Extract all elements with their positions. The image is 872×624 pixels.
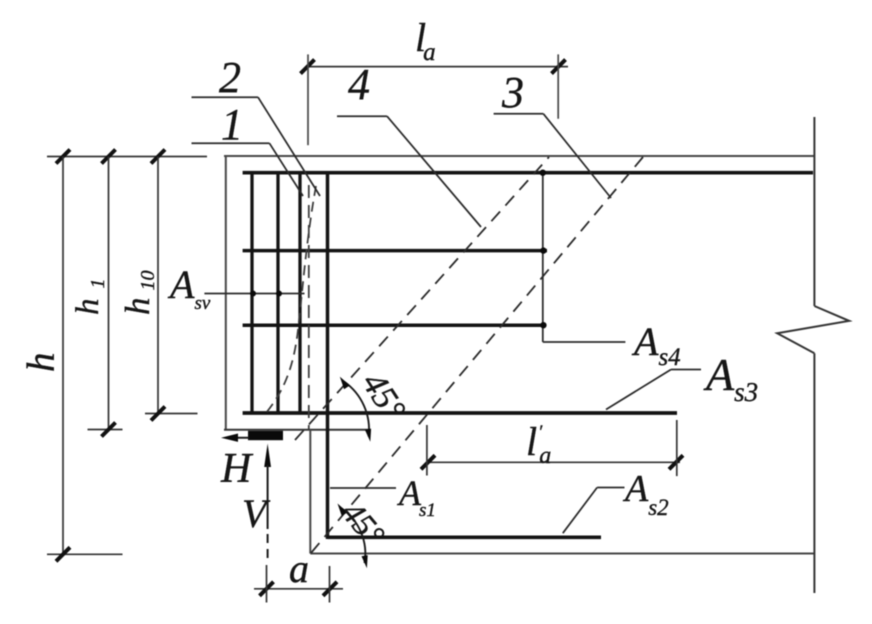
horizontal bar As4 upper	[243, 249, 547, 253]
svg-text:h: h	[20, 353, 63, 373]
angle 45 upper arc	[340, 377, 371, 442]
dot Asv bar1	[250, 291, 256, 297]
tick h top	[56, 150, 70, 164]
leader 2	[192, 97, 321, 196]
svg-text:h1: h1	[70, 279, 109, 316]
beam right edge with break line	[777, 117, 849, 593]
bearing pad	[248, 431, 283, 440]
leader As3	[606, 370, 701, 410]
bar As2 horizontal	[328, 535, 602, 539]
leader Asv	[204, 293, 304, 295]
stirrup leg 1	[250, 173, 253, 413]
dot Asv bar2	[276, 291, 282, 297]
dot As4 mid	[540, 247, 546, 253]
la right extension line	[557, 54, 559, 118]
dimension a line	[254, 588, 343, 590]
tick h bottom	[56, 547, 70, 561]
stirrup leg 3	[298, 173, 301, 413]
angle 45 lower arc	[338, 504, 368, 569]
svg-text:1: 1	[221, 100, 243, 149]
tick l'a left	[421, 455, 435, 469]
tick l'a right	[669, 455, 683, 469]
crack line 1 dashed vertical	[308, 185, 310, 429]
leader 3	[494, 114, 611, 198]
dimension h10 bottom stub	[145, 413, 198, 415]
bar As2 vertical leg	[326, 171, 330, 539]
dimension h bottom stub	[47, 553, 123, 555]
stirrup leg 2	[276, 173, 279, 413]
dimension h1 vertical	[108, 157, 110, 430]
leader As2	[563, 488, 625, 534]
notch vertical face outline	[309, 430, 311, 554]
svg-text:h10: h10	[118, 271, 159, 316]
tick la left	[301, 60, 315, 74]
svg-text:H: H	[220, 446, 254, 492]
dimension h10 vertical	[157, 157, 159, 414]
svg-text:As1: As1	[397, 473, 436, 521]
dimension la line	[306, 66, 568, 68]
svg-text:2: 2	[219, 53, 241, 102]
a right extension	[329, 566, 331, 603]
l'a right extension	[676, 420, 678, 476]
beam left end face outline	[225, 156, 227, 430]
tick h10 top	[151, 150, 165, 164]
beam bottom edge outline	[310, 553, 814, 555]
la left extension line	[307, 54, 309, 145]
svg-text:3: 3	[501, 68, 524, 117]
dimension group h h1 h10 top line	[47, 156, 207, 158]
svg-text:Asv: Asv	[167, 262, 211, 314]
bar As3	[243, 411, 677, 415]
tick la right	[552, 60, 566, 74]
load H arrow	[221, 434, 249, 442]
svg-text:45°: 45°	[334, 495, 391, 554]
tick h10 bottom	[151, 407, 165, 421]
dimension h vertical	[62, 157, 64, 555]
leader As1	[330, 487, 396, 489]
svg-text:As2: As2	[622, 468, 669, 520]
svg-text:a: a	[289, 546, 309, 591]
tick h1 bottom	[102, 423, 116, 437]
tick h1 top	[102, 150, 116, 164]
leader 4	[337, 116, 481, 227]
nib bottom edge outline	[224, 429, 369, 431]
load V arrow	[264, 444, 271, 603]
top longitudinal bar	[243, 171, 813, 175]
beam top edge outline	[224, 155, 814, 157]
crack line 3 dashed diagonal	[311, 157, 643, 553]
crack line 2 dashed curve	[266, 186, 316, 413]
svg-text:l′a: l′a	[526, 419, 551, 469]
svg-text:As3: As3	[703, 349, 758, 407]
svg-text:4: 4	[348, 60, 370, 109]
svg-text:la: la	[415, 15, 436, 66]
svg-text:As4: As4	[631, 319, 681, 371]
dot As4 low	[540, 322, 546, 328]
dimension l'a line	[426, 461, 680, 463]
l'a left extension	[426, 425, 428, 476]
leader As4	[543, 173, 626, 342]
leader 1	[192, 143, 304, 196]
tick a right	[323, 582, 337, 596]
crack line 4 dashed diagonal	[295, 157, 549, 440]
tick a left	[260, 582, 274, 596]
horizontal bar As4 lower	[243, 323, 545, 327]
dimension h1 bottom stub	[88, 429, 123, 431]
svg-text:45°: 45°	[354, 365, 413, 427]
dot As4 top	[540, 170, 546, 176]
